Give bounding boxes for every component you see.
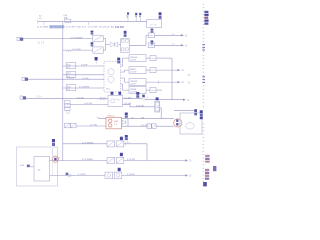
svg-text:30A: 30A xyxy=(64,16,68,19)
washer switch S30 xyxy=(65,123,77,128)
wire row A out xyxy=(124,143,147,145)
wire contact a out xyxy=(103,38,105,40)
wire join vertical xyxy=(105,39,107,51)
wire r3 out xyxy=(146,81,178,83)
svg-text:0.5 BR: 0.5 BR xyxy=(125,97,132,99)
splice label d xyxy=(66,85,76,91)
wire code box r4 xyxy=(129,87,146,94)
highlighted module pin ring xyxy=(52,156,58,162)
terminal X2.2 xyxy=(148,43,154,48)
wire row C from module xyxy=(50,174,105,176)
splice label c xyxy=(67,78,75,80)
wire sensor feed xyxy=(26,98,108,100)
margin note bottom 4 xyxy=(203,182,207,186)
splice ticks so1 xyxy=(143,97,149,100)
svg-text:4.0 SW 30 X125.8 2.5 RT 30 X1: 4.0 SW 30 X125.8 2.5 RT 30 X1 xyxy=(37,27,87,29)
endpoint arrow mid xyxy=(181,44,184,46)
wire sensor out1 xyxy=(123,98,142,100)
endpoint arrow r2 xyxy=(178,69,181,71)
svg-text:SW/BL: SW/BL xyxy=(130,89,137,91)
wire diode to relay xyxy=(119,44,121,46)
wire from X6 xyxy=(28,78,104,80)
wire ms to motor xyxy=(140,118,174,120)
endpoint arrow top xyxy=(181,34,184,36)
svg-text:BR/RT: BR/RT xyxy=(130,69,137,71)
wire sensor out2 xyxy=(123,104,155,107)
svg-text:t 0.5 WS: t 0.5 WS xyxy=(84,102,93,105)
wire row B from ring xyxy=(50,160,107,162)
endpoint arrow so1 xyxy=(183,99,186,101)
splice mark row A xyxy=(125,142,130,146)
svg-text:0.5 BR: 0.5 BR xyxy=(81,65,88,67)
svg-text:K30 300: K30 300 xyxy=(115,26,125,29)
margin legend stack top-right xyxy=(204,11,208,25)
svg-text:M32 4c: M32 4c xyxy=(108,115,116,117)
wire to diode xyxy=(106,44,110,46)
svg-text:0.5 GR: 0.5 GR xyxy=(77,97,84,99)
pin X7.2 xyxy=(150,68,156,73)
switch group B xyxy=(107,157,124,163)
svg-text:0.5 GE: 0.5 GE xyxy=(130,72,137,74)
wire out p3 xyxy=(121,78,130,82)
svg-text:0.5 BL: 0.5 BL xyxy=(130,60,137,62)
pin stub P xyxy=(95,60,97,63)
pin tick col b xyxy=(135,16,137,22)
wire r1 drop xyxy=(171,58,173,100)
wire out p4 xyxy=(121,84,130,90)
svg-text:0.5 BR/WS: 0.5 BR/WS xyxy=(79,87,90,89)
splice label b xyxy=(66,72,76,78)
instrument cluster P1 xyxy=(104,61,121,92)
svg-text:0.5 RT: 0.5 RT xyxy=(130,84,137,86)
main vertical bus xyxy=(62,22,64,161)
wire from block down xyxy=(160,108,161,119)
wire code box r1 xyxy=(129,55,146,62)
wire code box r2 xyxy=(129,67,146,74)
pin label P1 designator xyxy=(117,58,120,64)
svg-text:0.75 BR: 0.75 BR xyxy=(127,174,135,176)
wire r1 to corner xyxy=(156,57,172,59)
pin square col a xyxy=(127,12,129,14)
svg-text:0.5 4: 0.5 4 xyxy=(37,96,43,99)
diode pair V1 xyxy=(111,42,118,47)
battery G1 box xyxy=(147,20,162,28)
wire from S12 xyxy=(70,104,108,106)
module pin stub xyxy=(51,149,53,157)
connector X1 top-left xyxy=(17,37,23,41)
splice tick r3 xyxy=(158,80,160,83)
switch S6 contact b xyxy=(93,47,103,53)
pin square col c xyxy=(139,13,141,15)
motor designator stack a xyxy=(200,110,203,116)
pin square col b xyxy=(135,13,137,15)
diode pump out xyxy=(122,120,126,124)
switch S6 contact a xyxy=(93,35,103,41)
wire to right top xyxy=(154,34,181,36)
wire washer line to motor xyxy=(156,125,174,127)
battery designator G1 xyxy=(159,12,162,19)
wire r2 out xyxy=(146,69,150,71)
svg-text:4 4 4: 4 4 4 xyxy=(66,50,72,53)
wire branch vertical xyxy=(145,35,147,45)
connector block X9 xyxy=(155,101,160,112)
svg-text:0.5 GE: 0.5 GE xyxy=(82,78,89,80)
switch S6 designator xyxy=(91,31,94,35)
svg-text:SW/GE: SW/GE xyxy=(130,57,138,59)
wire into pump a xyxy=(99,118,106,120)
motor designator stack b xyxy=(200,117,203,120)
wire so1 to edge xyxy=(145,99,183,101)
wire row B out long xyxy=(124,159,185,161)
wire pump out bottom xyxy=(122,125,148,127)
wire contact b out xyxy=(103,49,105,51)
module pin designator xyxy=(52,139,55,146)
wire row C out long xyxy=(122,174,185,176)
splice dark mark so1 xyxy=(142,95,145,98)
splice label a xyxy=(66,63,76,69)
wire pump out top xyxy=(122,118,141,120)
control module A1 outer box xyxy=(17,147,58,186)
pin link line below ring xyxy=(51,163,53,176)
pin tick col a xyxy=(127,17,129,22)
pin tick col c xyxy=(139,16,141,22)
wire branch gauge a xyxy=(63,65,104,67)
switch group A designator xyxy=(120,137,123,140)
svg-text:(─◠─): (─◠─) xyxy=(150,23,157,26)
wire r4 out xyxy=(146,89,150,91)
pin X7.4 xyxy=(150,88,156,93)
svg-text:0.75 BR: 0.75 BR xyxy=(78,174,86,176)
junction tick A xyxy=(43,22,45,25)
wire code box r3 xyxy=(129,79,146,86)
sensor pin label a xyxy=(111,92,114,95)
wire r1 out xyxy=(146,57,150,59)
designator below pump xyxy=(125,135,128,140)
endpoint arrow r3 xyxy=(178,81,181,83)
svg-text:0.35 SW: 0.35 SW xyxy=(136,106,144,108)
wire washer to pump xyxy=(76,125,106,127)
connector block designator xyxy=(156,97,159,100)
svg-text:0.75 SW/WS: 0.75 SW/WS xyxy=(71,37,84,39)
svg-text:0.5 GE: 0.5 GE xyxy=(125,103,132,105)
control module inner unit xyxy=(34,157,50,181)
margin note bottom 3 xyxy=(205,169,209,180)
motor feed wire top xyxy=(174,109,197,115)
connector X10 inside module xyxy=(20,165,34,168)
svg-text:X14 0.5: X14 0.5 xyxy=(67,78,75,80)
wire row A drop xyxy=(146,144,148,161)
highlighted connector ring xyxy=(174,119,182,127)
svg-text:0.5 SW: 0.5 SW xyxy=(90,125,97,127)
wire from X1 xyxy=(23,38,93,40)
wire r2 to edge xyxy=(156,69,178,71)
svg-text:0.75 SW: 0.75 SW xyxy=(73,49,81,51)
margin emphasized ticks xyxy=(202,45,205,83)
lamp group C xyxy=(105,172,122,179)
pin X7.1 xyxy=(150,56,156,61)
connector X8 left xyxy=(20,96,26,100)
designator above so1 xyxy=(136,92,139,98)
wire branch 2 xyxy=(63,49,93,51)
wire pump join vertical xyxy=(127,119,129,127)
connector X6 left xyxy=(22,77,28,81)
wire branch top xyxy=(146,34,148,36)
wire r4 stub xyxy=(156,89,162,91)
sensor B3 box xyxy=(108,95,123,106)
switch group A xyxy=(107,141,124,147)
margin tick column xyxy=(203,4,205,185)
svg-text:GR/WS: GR/WS xyxy=(130,81,138,83)
wire out p1 xyxy=(121,58,130,66)
margin note bottom 2 xyxy=(213,166,216,171)
fuse F19 xyxy=(64,15,71,22)
wire top supply bus 30 xyxy=(38,20,147,24)
sensor pin label b xyxy=(118,92,121,95)
terminal X2.1 label xyxy=(151,29,154,33)
wire row A xyxy=(63,143,107,145)
svg-text:0.75 SW/GE: 0.75 SW/GE xyxy=(82,143,94,145)
pump M32 highlighted box xyxy=(106,117,122,129)
relay K5 xyxy=(121,39,130,53)
thermo switch stack S12 xyxy=(65,101,71,114)
svg-text:2.5 RT X125.4 30: 2.5 RT X125.4 30 xyxy=(88,27,115,29)
pin label P top xyxy=(95,57,98,60)
lamp group designator xyxy=(118,168,121,171)
svg-text:31 0.5: 31 0.5 xyxy=(38,41,45,44)
endpoint arrow row C xyxy=(185,174,188,176)
terminal X2.2 label xyxy=(151,40,154,44)
wire relay out xyxy=(130,44,147,46)
switch group B designator xyxy=(120,153,123,156)
wire out p2 xyxy=(121,70,130,72)
net highlight on wire label row xyxy=(49,25,64,28)
margin note bottom 1 xyxy=(205,155,209,163)
splice boxes on washer line xyxy=(147,124,156,129)
wire to right mid xyxy=(154,44,181,46)
svg-text:0.75 SW: 0.75 SW xyxy=(127,159,135,161)
wire branch gauge d xyxy=(63,87,104,89)
relay K5 designator xyxy=(124,31,127,37)
terminal X2.1 xyxy=(148,33,154,38)
inline pin row C xyxy=(66,173,72,177)
endpoint arrow row B xyxy=(185,159,188,161)
wire branch gauge b xyxy=(63,74,104,76)
wiper motor box M4 xyxy=(180,113,202,134)
wire color s2 xyxy=(100,97,106,100)
svg-text:0.75 SW/BL: 0.75 SW/BL xyxy=(82,159,94,161)
switch contact b designator xyxy=(91,42,94,46)
junction tick B xyxy=(87,22,89,25)
designator above pump out xyxy=(125,113,128,118)
